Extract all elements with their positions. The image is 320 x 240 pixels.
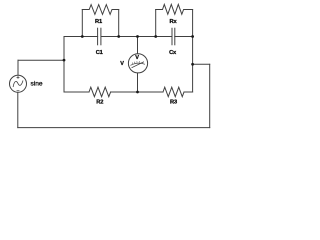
node right RxCx junction	[191, 35, 194, 38]
wire mid rail center segment	[101, 36, 172, 38]
node left R1C1 junction	[81, 35, 84, 38]
wire voltmeter top lead	[137, 37, 139, 54]
node left RxCx junction	[154, 35, 157, 38]
node right R1C1 junction	[117, 35, 120, 38]
wire R1 left riser	[81, 10, 83, 37]
capacitor Cx right plate	[174, 28, 176, 45]
wire bottom arm middle segment	[111, 91, 163, 93]
capacitor C1 right plate	[100, 28, 102, 45]
node B source-bridge right junction	[191, 63, 194, 66]
wire source bottom lead	[17, 92, 19, 127]
svg-text:R2: R2	[96, 100, 103, 106]
resistor R1	[82, 5, 118, 15]
wire source top lead	[17, 60, 19, 75]
wire mid rail right segment	[175, 36, 193, 38]
node A source-bridge left junction	[63, 59, 66, 62]
voltmeter U1 circle	[128, 54, 147, 73]
source plus mark	[17, 76, 19, 78]
wire bottom arm left segment	[64, 91, 89, 93]
source sine wave symbol	[13, 81, 23, 87]
svg-text:V: V	[135, 55, 139, 61]
resistor R2	[89, 87, 111, 97]
wire mid rail left segment	[64, 36, 98, 38]
svg-text:Cx: Cx	[169, 50, 177, 56]
wire bottom rail	[18, 127, 210, 129]
source minus mark	[17, 90, 19, 92]
voltmeter needle	[132, 62, 144, 68]
capacitor Cx left plate	[171, 28, 173, 45]
wire top-left horizontal to node A	[18, 59, 64, 61]
svg-text:R3: R3	[170, 100, 177, 106]
node voltmeter bottom junction	[136, 91, 139, 94]
svg-text:C1: C1	[96, 50, 103, 56]
svg-text:R1: R1	[95, 19, 102, 25]
wire right riser from Rx through mid rail to bottom arm	[192, 10, 194, 93]
node voltmeter top junction	[136, 35, 139, 38]
svg-text:V: V	[120, 61, 124, 67]
wire Rx left riser	[155, 10, 157, 37]
capacitor C1 left plate	[97, 28, 99, 45]
wire node B to outer right	[193, 63, 210, 65]
wire bottom arm right segment	[184, 91, 193, 93]
wire outer right vertical	[209, 64, 211, 127]
wire left riser node A to mid rail and down to bottom arm	[63, 37, 65, 93]
source V1 sine circle	[10, 75, 27, 92]
voltmeter scale ticks	[132, 61, 139, 63]
svg-text:Rx: Rx	[170, 19, 178, 25]
wire voltmeter bottom lead	[137, 73, 139, 92]
resistor Rx	[156, 4, 193, 14]
svg-text:sine: sine	[31, 81, 43, 88]
wire R1 right riser	[118, 10, 120, 37]
voltmeter scale arc	[131, 63, 145, 65]
resistor R3	[163, 87, 184, 97]
